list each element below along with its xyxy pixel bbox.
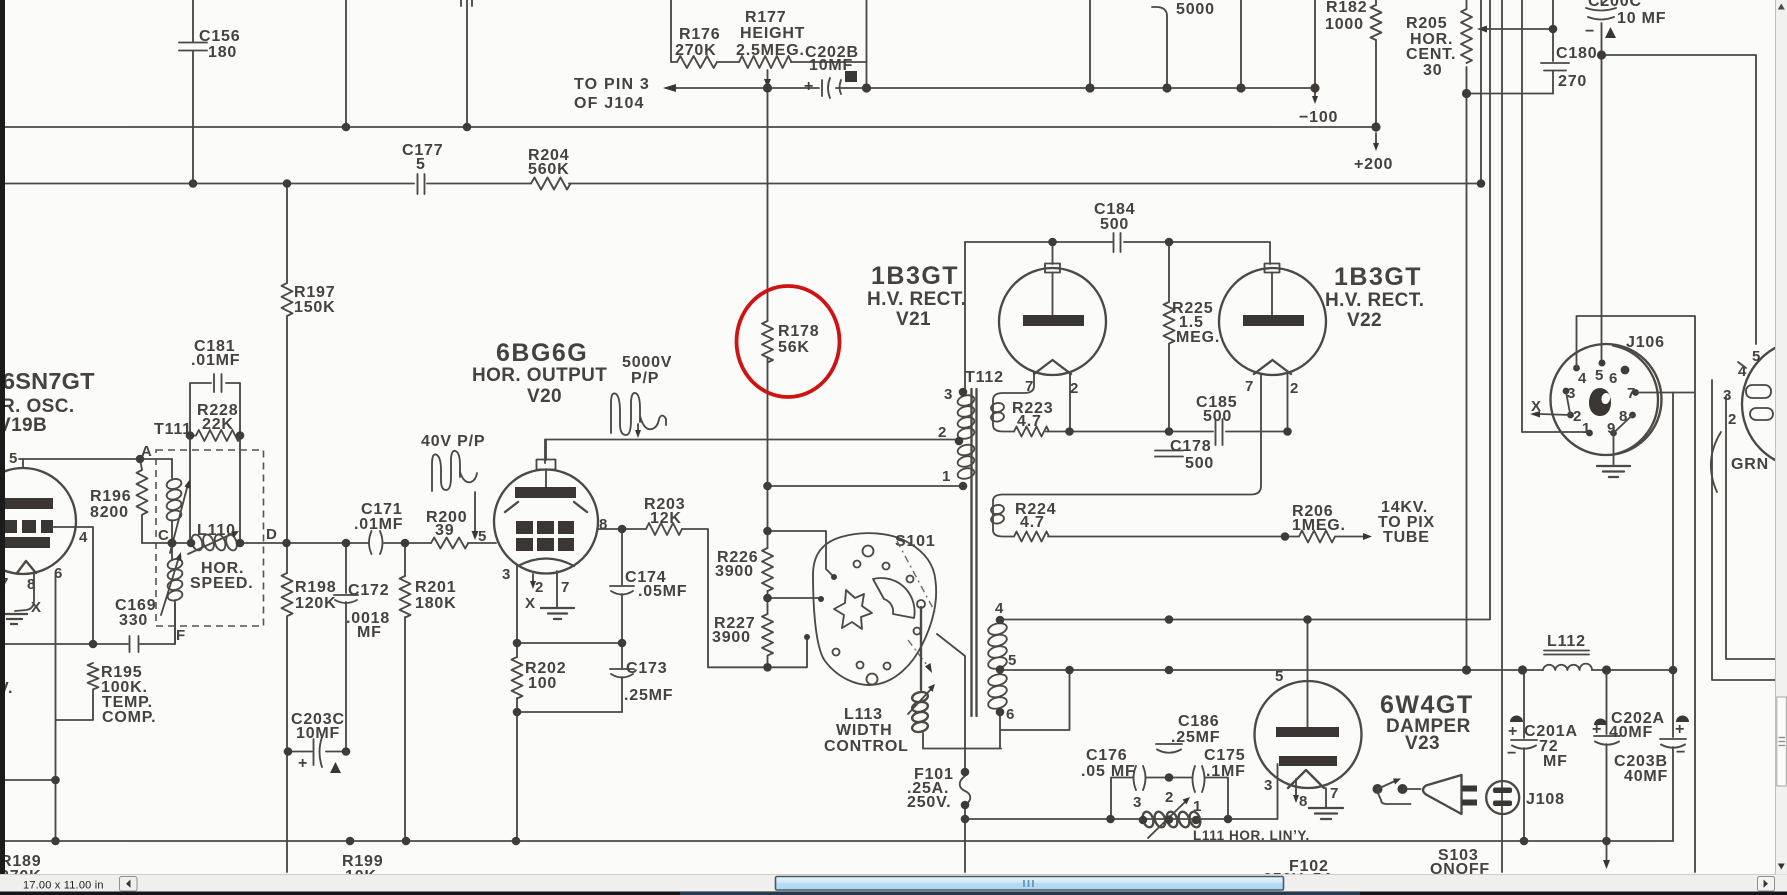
svg-text:10MF: 10MF xyxy=(296,725,340,742)
svg-text:R198: R198 xyxy=(295,579,336,596)
svg-text:2: 2 xyxy=(1573,408,1582,425)
svg-text:MF: MF xyxy=(1543,753,1568,770)
J106 pins xyxy=(1563,360,1639,437)
capacitor C181 with loop xyxy=(190,338,240,436)
wire: J106 pin3 to pin2 link xyxy=(1566,392,1570,413)
svg-text:R178: R178 xyxy=(778,323,819,340)
svg-text:6: 6 xyxy=(1609,370,1618,387)
capacitor C180 xyxy=(1541,45,1597,90)
svg-text:+200: +200 xyxy=(1354,156,1393,173)
junction dots grid line xyxy=(136,455,410,548)
slug arrow T111 upper xyxy=(170,479,191,553)
svg-text:180K: 180K xyxy=(415,595,456,612)
wire: vertical x=866.5 (C202B node) xyxy=(866,0,868,88)
fuse F101 xyxy=(907,766,970,811)
coil L113 width control xyxy=(824,607,1001,755)
wire: heater row y=431.5 xyxy=(1070,431,1288,433)
bottom left partial labels R189 xyxy=(0,853,41,885)
capacitor C156 xyxy=(179,28,240,61)
wire: damper output line y=670 xyxy=(1000,669,1673,671)
svg-text:330: 330 xyxy=(119,612,148,629)
junction dots C181/R228 xyxy=(186,431,245,440)
text F102 xyxy=(1263,858,1340,888)
svg-text:HEIGHT: HEIGHT xyxy=(740,25,805,42)
wire: T112 pin6 jumper xyxy=(1000,670,1070,749)
wire: top stub marks cut component xyxy=(461,0,472,6)
svg-text:V20: V20 xyxy=(527,386,562,407)
node +200 with arrow xyxy=(1354,133,1393,173)
J106 center keyway xyxy=(1589,388,1611,416)
scrollbar right arrow button xyxy=(1758,877,1775,892)
svg-text:1: 1 xyxy=(1582,420,1591,437)
wirewound resistor R224 + heater path from V22 pin7 xyxy=(990,374,1285,542)
wire: vertical x=1090 xyxy=(1089,0,1091,88)
dashed alignment box xyxy=(156,450,264,626)
junction dots bottom right xyxy=(1520,837,1611,846)
svg-text:4: 4 xyxy=(1578,370,1587,387)
wire: vertical x=1315 (-100 node) xyxy=(1314,0,1316,88)
wire: cathode row y=643 xyxy=(517,642,622,644)
waveform 5000V P/P xyxy=(611,354,672,438)
electrolytic capacitor C200C top right xyxy=(1585,0,1666,40)
svg-text:C173: C173 xyxy=(626,660,667,677)
svg-text:S101: S101 xyxy=(895,533,936,550)
svg-text:SPEED.: SPEED. xyxy=(190,575,254,592)
svg-text:4.7: 4.7 xyxy=(1017,413,1042,430)
coil T111 lower winding xyxy=(167,558,184,602)
socket J106 outline xyxy=(1551,334,1665,455)
wire: R205 wiper row y=29 xyxy=(1484,28,1553,30)
wire: vertical x=1522 to J106 pin1 xyxy=(1522,0,1586,432)
wire: R227 bottom row y=667.3 xyxy=(708,639,807,667)
svg-text:40MF: 40MF xyxy=(1609,724,1653,741)
ground V20 xyxy=(541,608,574,619)
svg-text:D: D xyxy=(266,526,277,543)
svg-text:X: X xyxy=(1531,398,1542,415)
svg-text:1B3GT: 1B3GT xyxy=(871,262,959,290)
svg-text:V21: V21 xyxy=(896,309,931,330)
svg-text:R182: R182 xyxy=(1326,0,1367,16)
svg-text:5: 5 xyxy=(1752,348,1761,365)
resistor R176 xyxy=(675,26,720,68)
svg-text:−: − xyxy=(1507,745,1517,762)
junction dots line B/C top xyxy=(189,122,1486,187)
svg-text:WIDTH: WIDTH xyxy=(836,722,892,739)
coil L110 horizontal xyxy=(190,522,239,552)
svg-text:7: 7 xyxy=(1627,385,1636,402)
svg-text:3: 3 xyxy=(1133,794,1142,811)
svg-text:5: 5 xyxy=(1275,668,1284,685)
svg-text:56K: 56K xyxy=(778,339,810,356)
status bar background xyxy=(0,875,1787,892)
svg-text:9: 9 xyxy=(1607,420,1616,437)
capacitor C171 xyxy=(354,501,403,554)
transformer T112 core xyxy=(972,389,977,716)
svg-text:COMP.: COMP. xyxy=(102,709,156,726)
ground V23 xyxy=(1309,808,1343,819)
wire: J106 pin8-pin9 link xyxy=(1614,415,1633,433)
tube V21 labels xyxy=(867,262,966,330)
svg-text:5: 5 xyxy=(478,528,487,545)
rotary switch S101 body xyxy=(813,533,936,685)
wire: V23 pin8 arrow xyxy=(1293,779,1299,803)
V20 pin labels xyxy=(502,516,608,612)
svg-text:3900: 3900 xyxy=(712,629,751,646)
wire: vertical x=1167 with curl to 5000 resistor xyxy=(1152,7,1167,88)
svg-text:X: X xyxy=(525,595,536,612)
svg-text:J106: J106 xyxy=(1626,334,1665,351)
svg-text:5: 5 xyxy=(416,156,426,173)
svg-text:.01MF: .01MF xyxy=(191,352,240,369)
svg-text:L111 HOR. LINʼY.: L111 HOR. LINʼY. xyxy=(1193,828,1310,843)
svg-text:+: + xyxy=(1592,721,1602,738)
wire: plate cap row y=242 xyxy=(965,242,1270,264)
svg-text:10 MF: 10 MF xyxy=(1617,10,1666,27)
wire: V20 pin8 to R203 to S101 column xyxy=(597,529,708,667)
deflection yoke nested border xyxy=(1712,380,1776,680)
svg-text:TO PIN 3: TO PIN 3 xyxy=(574,76,650,93)
svg-text:2: 2 xyxy=(535,579,544,596)
svg-text:R176: R176 xyxy=(679,26,720,43)
resistor R201 xyxy=(400,576,457,618)
resistor R226 xyxy=(715,548,773,591)
wire: vertical x=1241 xyxy=(1240,0,1242,88)
wire: R176 R177 top row y=62 xyxy=(671,0,867,62)
capacitor C174 xyxy=(610,569,687,600)
svg-text:R205: R205 xyxy=(1406,15,1447,32)
svg-text:2: 2 xyxy=(1728,411,1737,428)
wire: C203C row y=751.5 xyxy=(287,751,346,753)
wire: V22 pin2 drop xyxy=(1287,374,1289,432)
tube V20 labels xyxy=(472,339,607,407)
capacitor C169 xyxy=(115,597,156,652)
transformer T112 secondary lower winding xyxy=(987,621,1008,710)
wire: vertical x=346 lower (C172 branch) xyxy=(345,543,347,752)
svg-text:4: 4 xyxy=(995,600,1004,617)
svg-text:.05MF: .05MF xyxy=(638,583,687,600)
svg-text:2: 2 xyxy=(938,424,947,441)
svg-text:4: 4 xyxy=(79,529,88,546)
left black border bar of scan xyxy=(0,0,5,874)
arrow TO PIN 3 OF J104 xyxy=(574,76,676,112)
capacitor C178 xyxy=(1155,438,1214,472)
resistor R202 xyxy=(512,657,567,699)
wire: R205/C180 bottom row y=93.5 xyxy=(1467,93,1554,95)
svg-text:CONTROL: CONTROL xyxy=(824,738,909,755)
svg-text:.25MF: .25MF xyxy=(624,687,673,704)
wire: linearity bus y=819 xyxy=(965,764,1278,819)
wire: vertical x=346 top xyxy=(345,0,347,127)
capacitor C172 xyxy=(334,582,390,641)
wire: left column x=55.5 xyxy=(55,575,57,841)
svg-text:17.00 x 11.00 in: 17.00 x 11.00 in xyxy=(23,880,104,892)
resistor R196 xyxy=(90,459,148,543)
wire: V19B pin8 to ground xyxy=(15,572,34,611)
bottom labels R199 xyxy=(342,853,383,885)
capacitor C177 xyxy=(402,142,443,194)
svg-text:HOR. OUTPUT: HOR. OUTPUT xyxy=(472,365,607,386)
wire: F101 column to bottom xyxy=(964,805,966,872)
svg-text:R201: R201 xyxy=(415,579,456,596)
svg-text:L113: L113 xyxy=(844,706,883,723)
svg-text:.05 MF: .05 MF xyxy=(1081,763,1136,780)
svg-text:C200C: C200C xyxy=(1588,0,1642,10)
junction dots bottom bus xyxy=(284,747,521,845)
wire: bottom ground bus (y=841) xyxy=(5,840,1673,842)
svg-text:MF: MF xyxy=(357,624,382,641)
svg-text:+: + xyxy=(298,755,308,772)
transformer T112 primary winding xyxy=(957,394,976,481)
tube V22 labels xyxy=(1325,263,1424,331)
junction dots V20 area xyxy=(513,525,627,717)
svg-text:H.V. RECT.: H.V. RECT. xyxy=(867,289,966,310)
S101 wiper contact dots xyxy=(831,574,837,580)
resistor R200 xyxy=(426,509,468,549)
svg-text:.1MF: .1MF xyxy=(1206,763,1246,780)
wire: vertical x=287 (R197/R198 column) xyxy=(286,184,288,873)
tube V21 1B3GT xyxy=(999,242,1106,397)
coil L112 xyxy=(1543,633,1592,670)
svg-text:−: − xyxy=(1676,744,1686,761)
svg-text:270: 270 xyxy=(1558,73,1587,90)
junction dot J106 feed xyxy=(1599,360,1606,367)
wirewound resistor R223 xyxy=(990,372,1069,437)
switch S103 on-off with plug xyxy=(1373,779,1491,879)
svg-text:C175: C175 xyxy=(1204,747,1245,764)
red highlight circle around R178 xyxy=(737,286,840,397)
wire: plate drive line y=439.5 to T112 pin2 xyxy=(545,440,958,464)
svg-text:2: 2 xyxy=(1070,380,1079,397)
svg-text:7: 7 xyxy=(561,579,570,596)
svg-text:T112: T112 xyxy=(965,369,1004,386)
wire: grid line C-D (y=543) xyxy=(142,542,496,544)
wire: line A (boost line y=88) xyxy=(666,87,1315,89)
svg-text:30: 30 xyxy=(1423,62,1442,79)
wire: V20 pin7 to ground xyxy=(556,571,558,607)
junction dots top right xyxy=(1462,25,1606,98)
T112 pin labels 3 2 1 xyxy=(938,386,953,485)
potentiometer R177 HEIGHT xyxy=(736,9,805,88)
capacitor C184 xyxy=(1094,201,1135,252)
svg-text:6: 6 xyxy=(1006,706,1015,723)
svg-text:R177: R177 xyxy=(745,9,786,26)
tube V19B labels xyxy=(0,368,95,436)
svg-text:V19B: V19B xyxy=(0,415,47,436)
partial tube at right edge xyxy=(1723,340,1787,468)
wire: vertical x=1502 (long, through J108) xyxy=(1501,0,1503,872)
node -100 with arrow xyxy=(1299,92,1338,126)
capacitor C173 xyxy=(610,660,673,704)
svg-text:2.5MEG.: 2.5MEG. xyxy=(736,42,805,59)
svg-text:3: 3 xyxy=(1264,777,1273,794)
junction dots line A xyxy=(763,83,1320,92)
wire: top right row y=55 xyxy=(1602,55,1757,344)
svg-text:250V.: 250V. xyxy=(907,794,951,811)
svg-text:5: 5 xyxy=(9,450,18,467)
wire: vertical x=467 top xyxy=(466,0,468,127)
svg-text:12K: 12K xyxy=(650,510,682,527)
ground V19B xyxy=(2,614,27,624)
svg-text:500: 500 xyxy=(1203,408,1232,425)
wire: C174/C173 column x=622 xyxy=(621,529,623,712)
S101 rotor star xyxy=(834,590,872,629)
wire: S101 to F101 xyxy=(937,634,965,772)
wire: V20 pin2 arrow xyxy=(530,574,536,589)
svg-text:150K: 150K xyxy=(294,299,335,316)
J106 pin numbers xyxy=(1567,367,1636,437)
wire: vertical x=405 (R201 branch) xyxy=(404,543,406,841)
wire: V23 pin7 to ground xyxy=(1325,788,1327,808)
HOR. SPEED. label xyxy=(190,560,254,592)
resistor R225 xyxy=(1164,242,1221,432)
capacitor C185 xyxy=(1196,394,1237,445)
GRN wire arc xyxy=(1711,432,1769,492)
resistor R178 xyxy=(762,321,819,363)
wire: x=965 plate feed down to T112 xyxy=(964,242,966,392)
wire: vertical x=1481 xyxy=(1480,0,1482,184)
scrollbar left arrow button xyxy=(120,877,138,892)
resistor R227 xyxy=(712,614,773,656)
svg-text:5000V: 5000V xyxy=(622,354,672,371)
svg-text:L112: L112 xyxy=(1547,633,1586,650)
text 14KV TO PIX TUBE xyxy=(1378,499,1435,546)
svg-text:+: + xyxy=(1675,721,1685,738)
junction dots T112 xyxy=(955,388,1005,717)
tube V20 6BG6G xyxy=(494,440,598,574)
svg-text:L110: L110 xyxy=(197,522,236,539)
wire: T112 pin1 row y=486 xyxy=(768,485,964,487)
electrolytic capacitor C203B xyxy=(1614,393,1689,842)
svg-text:7: 7 xyxy=(1245,378,1254,395)
tube V19B 6SN7GT (partial at left edge) xyxy=(0,450,88,616)
resistor R197 xyxy=(282,283,336,316)
wire: R182 column x=1376 xyxy=(1375,0,1377,127)
wire: R205 column x=1466 xyxy=(1466,0,1468,670)
svg-text:C: C xyxy=(158,527,169,544)
svg-text:H.V. RECT.: H.V. RECT. xyxy=(1325,290,1424,311)
svg-text:C176: C176 xyxy=(1086,747,1127,764)
svg-text:6SN7GT: 6SN7GT xyxy=(2,368,95,394)
svg-text:560K: 560K xyxy=(528,161,569,178)
svg-text:C186: C186 xyxy=(1178,713,1219,730)
resistor R203 xyxy=(644,496,685,535)
arrowhead R205 wiper xyxy=(1477,26,1487,33)
wire: V19B pin5 stub xyxy=(22,459,24,468)
waveform 40V P/P xyxy=(421,433,485,540)
svg-text:5000: 5000 xyxy=(1176,1,1215,18)
svg-text:3900: 3900 xyxy=(715,563,754,580)
wire: cathode row y=712 xyxy=(517,711,622,713)
wire: node A to T111 top coil xyxy=(171,459,173,478)
S101 rotor segment arc xyxy=(873,578,915,618)
tube V23 labels xyxy=(1380,691,1474,754)
wire: C169 row y=644 xyxy=(2,604,175,644)
svg-text:−: − xyxy=(1585,23,1595,40)
svg-text:120K: 120K xyxy=(295,595,336,612)
wire: V21 pin2 drop xyxy=(1069,374,1071,432)
svg-text:.01MF: .01MF xyxy=(354,516,403,533)
svg-text:22K: 22K xyxy=(202,416,234,433)
svg-text:270K: 270K xyxy=(675,42,716,59)
svg-text:V23: V23 xyxy=(1405,733,1440,754)
svg-text:40V P/P: 40V P/P xyxy=(421,433,485,450)
electrolytic capacitor C203C xyxy=(291,711,345,773)
svg-text:2: 2 xyxy=(1165,789,1174,806)
svg-text:C172: C172 xyxy=(348,582,389,599)
svg-text:F: F xyxy=(176,627,186,644)
wire: C176/C175 row y=777.5 xyxy=(1111,778,1228,820)
svg-text:3: 3 xyxy=(1723,387,1732,404)
svg-text:V22: V22 xyxy=(1347,310,1382,331)
svg-text:3: 3 xyxy=(944,386,953,403)
svg-text:100: 100 xyxy=(528,675,557,692)
junction dots R178 column xyxy=(763,482,772,672)
svg-text:CENT.: CENT. xyxy=(1406,46,1456,63)
svg-text:5: 5 xyxy=(1595,367,1604,384)
capacitor C186 xyxy=(1156,713,1220,753)
wire: R228 left node down to L110 xyxy=(189,436,191,544)
vertical scrollbar down arrow xyxy=(1778,864,1785,870)
wire: vertical x=193 through C156 xyxy=(192,0,194,184)
svg-text:C156: C156 xyxy=(199,28,240,45)
svg-text:1: 1 xyxy=(942,468,951,485)
svg-text:J108: J108 xyxy=(1526,791,1565,808)
svg-text:40MF: 40MF xyxy=(1624,768,1668,785)
wire: V20 pin3 / R202 branch x=517 xyxy=(516,566,518,841)
potentiometer R205 HOR.CENT. xyxy=(1406,9,1472,79)
wire: horizontal line B (y=127) xyxy=(5,126,1376,128)
wire: J106 pin9 to ground xyxy=(1613,433,1615,465)
resistor R204 xyxy=(528,147,571,190)
wire: grid return row y=531 to S101 xyxy=(768,531,835,577)
svg-text:1MEG.: 1MEG. xyxy=(1292,517,1346,534)
wire: C180 column x=1553 xyxy=(1552,0,1554,94)
resistor R195 TEMP COMP xyxy=(56,663,157,726)
S101 gang dash line xyxy=(897,541,935,673)
svg-text:−100: −100 xyxy=(1299,109,1338,126)
wire: 6SN7 pin5 to node A (y=459) xyxy=(19,458,172,460)
svg-text:6BG6G: 6BG6G xyxy=(496,339,588,367)
svg-text:+: + xyxy=(804,78,814,95)
junction dots damper line xyxy=(1065,615,1677,674)
bottom dark bar xyxy=(0,892,1787,895)
svg-text:500: 500 xyxy=(1100,216,1129,233)
vertical scrollbar thumb xyxy=(1777,697,1787,786)
wire: R178/R226/R227 column x=767.5 xyxy=(767,88,769,667)
wire: J106 pin2 X arrow xyxy=(1530,398,1571,418)
vertical scrollbar track xyxy=(1776,0,1787,875)
tube V23 6W4GT xyxy=(1255,620,1362,811)
slug arrow L110 xyxy=(188,531,239,554)
svg-text:3: 3 xyxy=(502,566,511,583)
svg-text:P/P: P/P xyxy=(631,370,659,387)
svg-text:8200: 8200 xyxy=(90,504,129,521)
svg-text:7: 7 xyxy=(1330,785,1339,802)
wire: T112 pin4 line y=619.5 with corner up at x=1490 xyxy=(1000,0,1490,620)
resistor R206 xyxy=(1285,503,1372,543)
wire: V19B pin4 out xyxy=(52,527,93,644)
resistor R182 xyxy=(1325,0,1382,40)
svg-text:180: 180 xyxy=(208,44,237,61)
svg-text:500: 500 xyxy=(1185,455,1214,472)
resistor R228 xyxy=(190,402,241,441)
T112 pin labels 4 5 6 xyxy=(995,600,1017,723)
wire: horizontal line C (y=183.5) xyxy=(5,183,1481,185)
svg-text:C178: C178 xyxy=(1170,438,1211,455)
svg-text:8: 8 xyxy=(1299,793,1308,810)
svg-text:4.7: 4.7 xyxy=(1020,514,1045,531)
wire: J106 pin4 loop to pin7 xyxy=(1577,316,1696,872)
